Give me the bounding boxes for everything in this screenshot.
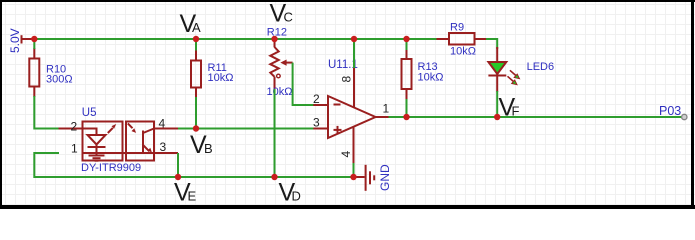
- U5 emitter: [143, 145, 149, 151]
- svg-text:D: D: [292, 189, 301, 204]
- junction 5.0V: [31, 36, 37, 42]
- svg-text:8: 8: [340, 76, 354, 83]
- port pin P03: [682, 114, 687, 119]
- junction pin8: [351, 36, 357, 42]
- svg-text:U5: U5: [82, 107, 97, 119]
- potentiometer R12: [270, 39, 292, 90]
- resistor R13: [402, 49, 412, 101]
- wire R12 wiper to op-amp pin2: [293, 63, 314, 105]
- wire output net to P03: [389, 116, 682, 118]
- U11.1 pin 4: [353, 126, 355, 164]
- junction VF: [494, 114, 500, 120]
- LED6 arrowhead 2: [512, 80, 517, 85]
- svg-text:10kΩ: 10kΩ: [418, 72, 444, 84]
- U5 emitter arrowhead: [147, 148, 152, 153]
- wire R10 bottom to U5 pin2: [34, 96, 59, 129]
- junction R13 top: [403, 36, 409, 42]
- junction VC: [271, 36, 277, 42]
- svg-text:R12: R12: [267, 27, 287, 39]
- svg-text:10kΩ: 10kΩ: [450, 46, 476, 58]
- led LED6: [488, 47, 515, 92]
- U5 left box: [83, 122, 123, 161]
- wire LED6 to VF: [496, 91, 498, 117]
- svg-text:F: F: [512, 104, 520, 119]
- optocoupler U5: [59, 122, 179, 161]
- svg-text:DY-ITR9909: DY-ITR9909: [81, 162, 141, 174]
- svg-text:P03: P03: [659, 104, 681, 118]
- svg-text:4: 4: [159, 117, 166, 131]
- junction VE: [175, 174, 181, 180]
- svg-text:10kΩ: 10kΩ: [267, 86, 293, 98]
- wire VB net to op-amp pin3: [178, 128, 314, 130]
- svg-text:R9: R9: [450, 22, 464, 34]
- U11.1 plus: [334, 129, 342, 131]
- wire VA to R11: [195, 39, 197, 51]
- wire R12 bottom to VD: [274, 89, 276, 177]
- frame border: [0, 0, 695, 2]
- svg-text:300Ω: 300Ω: [46, 74, 73, 86]
- wire 5.0V rail down to R10: [33, 39, 35, 49]
- wire top rail VA-VC: [34, 38, 436, 40]
- wire top rail to pin8: [353, 39, 355, 68]
- wire U5 pin3 down to VE: [177, 153, 179, 177]
- wire R11 bottom to VB: [195, 97, 197, 129]
- U5 right box: [126, 122, 154, 161]
- U5 diode: [88, 135, 106, 145]
- svg-text:GND: GND: [378, 164, 392, 191]
- svg-text:10kΩ: 10kΩ: [208, 72, 234, 84]
- svg-text:B: B: [204, 141, 213, 156]
- ground symbol: [354, 165, 375, 191]
- U5 anode path: [83, 129, 97, 136]
- resistor R10: [29, 48, 39, 97]
- svg-text:2: 2: [313, 92, 320, 106]
- svg-text:3: 3: [160, 140, 167, 154]
- svg-text:C: C: [284, 10, 293, 25]
- junction VD: [271, 174, 277, 180]
- power flag 5.0V: [21, 35, 35, 43]
- junction GND: [350, 174, 356, 180]
- U5 pin 4: [154, 128, 178, 130]
- junction VA: [193, 36, 199, 42]
- U5 cathode ground marks: [89, 155, 105, 157]
- R12 wiper arrowhead: [280, 60, 286, 66]
- junction R13 out: [403, 114, 409, 120]
- U5 receive arrowhead: [132, 128, 137, 133]
- U11.1 pin 3: [313, 128, 328, 130]
- svg-text:1: 1: [383, 102, 390, 116]
- U11.1 pin 8: [353, 67, 355, 108]
- resistor R11: [191, 50, 201, 99]
- svg-text:2: 2: [71, 120, 78, 134]
- resistor R9: [437, 33, 487, 45]
- U5 transistor base: [142, 131, 144, 153]
- U5 led arrowhead: [112, 124, 117, 129]
- wire U5 pin1 to bottom rail: [34, 153, 353, 177]
- R12 wiper circle: [277, 74, 281, 78]
- svg-text:LED6: LED6: [527, 61, 555, 73]
- wire pin4 to GND junction: [353, 163, 355, 177]
- svg-text:5.0V: 5.0V: [8, 28, 22, 53]
- svg-text:3: 3: [313, 116, 320, 130]
- op-amp U11.1: [313, 67, 389, 164]
- U5 pin1-pin3 internal rail: [83, 152, 179, 154]
- U5 pin 2: [59, 128, 83, 130]
- U11.1 minus: [334, 104, 341, 106]
- wire top rail to R13: [406, 39, 408, 50]
- U11.1 pin 2: [313, 104, 328, 106]
- svg-text:A: A: [192, 20, 201, 35]
- LED6 emit arrow 1: [510, 70, 516, 75]
- U11.1 pin 1: [376, 116, 390, 118]
- svg-text:4: 4: [339, 151, 353, 158]
- U5 led emit arrow: [108, 128, 113, 133]
- svg-text:1: 1: [71, 142, 78, 156]
- LED6 arrowhead 1: [514, 74, 519, 79]
- LED6 emit arrow 2: [508, 76, 514, 81]
- U5 receive arrow: [128, 123, 133, 128]
- junction VB: [193, 125, 199, 131]
- U5 collector: [143, 129, 154, 134]
- wire R9 right to LED corner: [486, 39, 498, 49]
- wire R13 bottom to output net: [406, 99, 408, 117]
- svg-text:E: E: [188, 189, 197, 204]
